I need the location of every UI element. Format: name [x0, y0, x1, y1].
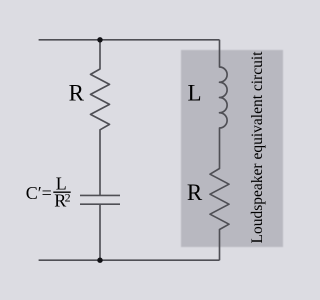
svg-text:R: R — [187, 180, 203, 205]
svg-text:R: R — [69, 81, 85, 106]
svg-text:Loudspeaker equivalent circuit: Loudspeaker equivalent circuit — [249, 51, 266, 244]
svg-text:C′=: C′= — [26, 183, 52, 203]
svg-text:2: 2 — [65, 190, 71, 204]
svg-text:L: L — [187, 80, 201, 105]
